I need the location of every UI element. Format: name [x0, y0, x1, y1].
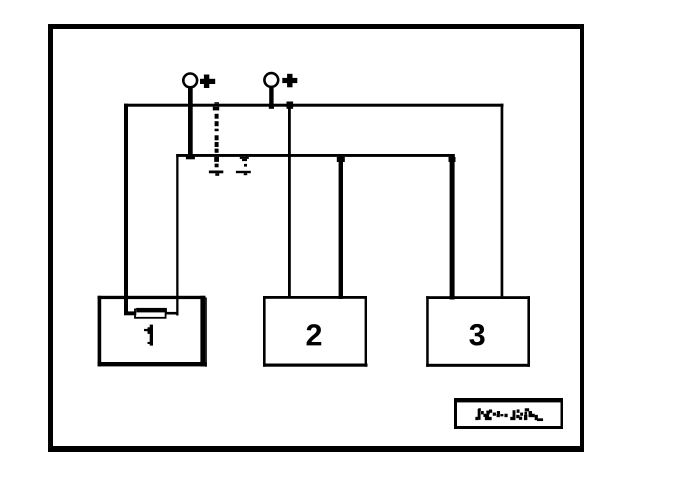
frame border [48, 24, 584, 452]
fuse element filled top bar [136, 308, 167, 313]
probe bar A (T-bar target of arrow A) [209, 171, 223, 174]
wire: elbow joining fuse right terminal to thin drop [167, 312, 179, 315]
wire: thick probe lead 1 down to second net [188, 88, 193, 158]
component box 3 [426, 296, 530, 367]
wire: left drop from top net to fuse in box 1 [124, 104, 128, 315]
code label box [454, 398, 563, 429]
junction cap on thick drop to box 2 [337, 157, 345, 162]
terminal probe circle 2 [264, 73, 278, 87]
junction node on top net above box 2 drop [287, 102, 294, 109]
dashed measurement arrow B (points down from second net) [240, 157, 249, 167]
label 1 [144, 325, 153, 346]
label 2 [307, 324, 322, 345]
wire: elbow joining left drop to fuse left terminal [124, 311, 136, 315]
dashed measurement arrow A (points up at top net) [213, 102, 219, 167]
wire: thin drop from top net end into box 3 right [501, 104, 504, 297]
wire: top net (terminal 2 net) horizontal [124, 104, 504, 107]
wire: thin drop from top net into box 2 left [288, 104, 291, 296]
terminal probe circle 1 [183, 74, 197, 88]
probe bar B (T-bar target of arrow B) [236, 171, 251, 173]
wire: thick drop from second net into box 2 right [339, 154, 343, 299]
wire: thin drop from second net to fuse right terminal [176, 154, 178, 316]
plus sign 2 [282, 74, 297, 88]
junction blob of probe lead 2 on top net [269, 105, 274, 109]
component box 2 [263, 296, 368, 367]
probe bar A stub [215, 173, 219, 176]
junction cap on thick drop to box 3 [449, 157, 456, 162]
label 3 [469, 324, 484, 346]
wire: thick probe lead 2 down to top net [269, 88, 273, 106]
wire: thick drop from second net end into box 3 left [450, 154, 455, 300]
code label text A24-0252 (degraded scan speckle) [475, 408, 543, 421]
wire: second net (terminal 1 net) horizontal [176, 154, 455, 157]
component box 1 [98, 296, 207, 367]
fuse element in box 1 (outline) [135, 309, 166, 317]
junction foot of probe lead 1 [186, 156, 195, 159]
plus sign 1 [200, 75, 215, 89]
probe bar B stub [244, 173, 248, 175]
